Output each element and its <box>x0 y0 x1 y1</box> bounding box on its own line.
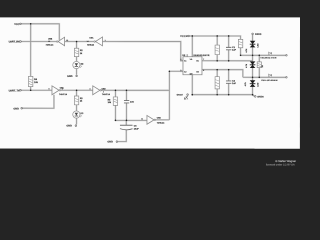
wire gate U5B to gate U5A <box>65 41 94 43</box>
resistor B2 parallel <box>257 62 264 68</box>
diode D5 tvs mid <box>250 61 256 68</box>
svg-text:1uF: 1uF <box>232 49 236 51</box>
wire IC bottom ground pin <box>191 75 193 95</box>
wire IC top power pin <box>191 36 193 57</box>
svg-text:U2: U2 <box>182 54 185 56</box>
svg-text:74HC14: 74HC14 <box>157 122 165 124</box>
svg-text:VCC2: VCC2 <box>180 35 187 38</box>
wire TX filter stubs <box>115 90 126 120</box>
svg-text:R5: R5 <box>108 99 111 101</box>
svg-text:© Stefan Wagner: © Stefan Wagner <box>275 160 296 163</box>
wire gate U5A input from IC pin <box>102 42 183 61</box>
svg-text:1k: 1k <box>80 100 82 102</box>
svg-text:1uF: 1uF <box>232 82 236 84</box>
svg-text:RXD0: RXD0 <box>255 33 262 36</box>
svg-text:GND: GND <box>13 107 19 110</box>
wire decoupling cap C2 stubs <box>228 70 230 95</box>
svg-text:VCC: VCC <box>14 23 19 26</box>
svg-text:GND2: GND2 <box>177 94 183 96</box>
diode D6 tvs bottom <box>250 80 256 87</box>
svg-text:A1: A1 <box>184 60 187 62</box>
svg-text:SN6501DBVR: SN6501DBVR <box>193 54 209 56</box>
wire resistor R6 bottom stub <box>240 48 242 56</box>
wire tap2 to terminal <box>243 76 285 78</box>
node terminal tap2 <box>286 77 288 79</box>
schematic white field <box>0 17 300 148</box>
svg-text:R2: R2 <box>80 49 83 51</box>
svg-text:GND: GND <box>67 75 73 78</box>
node RXD0 terminal <box>252 33 262 36</box>
node VCC2 terminal <box>180 35 189 38</box>
svg-text:10uF: 10uF <box>134 128 139 130</box>
svg-text:C4: C4 <box>134 125 137 127</box>
svg-text:UART_RX: UART_RX <box>9 40 20 43</box>
svg-text:U5D: U5D <box>102 88 106 90</box>
svg-text:74HC14: 74HC14 <box>87 44 94 46</box>
wire VCC2 rail <box>189 36 240 39</box>
svg-text:A2: A2 <box>184 71 187 73</box>
svg-text:VD: VD <box>190 58 193 60</box>
node GND cap <box>107 141 117 144</box>
resistor R4 pull-up <box>28 76 38 86</box>
LED D2 RX indicator <box>73 61 84 68</box>
wire bottom rail to inverter U5E <box>115 119 146 121</box>
svg-text:74HC14: 74HC14 <box>46 44 54 46</box>
capacitor C4 electrolytic <box>120 125 139 130</box>
node VCC rail wire <box>21 24 59 40</box>
wire IC right pin 1 line <box>202 60 253 62</box>
node GND0 terminal <box>254 95 263 98</box>
resistor RB lower <box>215 77 219 89</box>
svg-text:1k: 1k <box>80 52 82 54</box>
op-amp U5B inverter gate top1 <box>46 37 69 46</box>
svg-text:10k: 10k <box>108 101 112 103</box>
top letterbox bar <box>0 0 300 17</box>
op-amp U5A inverter gate top2 <box>87 37 106 46</box>
svg-text:C2: C2 <box>232 80 235 82</box>
svg-text:U5E: U5E <box>157 117 161 119</box>
wire IC left pin stubs <box>180 61 183 72</box>
LED D3 TX indicator <box>73 111 84 118</box>
node GND terminal bottom left <box>13 107 22 110</box>
svg-text:2: 2 <box>180 59 181 61</box>
wire UART_TX to gate U5C <box>21 89 51 91</box>
svg-text:C1: C1 <box>232 46 235 48</box>
svg-text:R3: R3 <box>80 97 83 99</box>
svg-text:GND: GND <box>107 141 113 144</box>
svg-text:5: 5 <box>48 88 49 90</box>
wire decoupling cap C1 stubs <box>228 36 230 61</box>
svg-text:6: 6 <box>203 69 204 71</box>
node GND RX chain <box>67 75 77 78</box>
wire resistor B2 parallel stubs <box>258 55 260 77</box>
capacitor C2 decoupling <box>226 80 236 85</box>
wire pull-up drop from VCC <box>30 24 32 77</box>
svg-text:12: 12 <box>48 40 50 42</box>
svg-text:14: 14 <box>87 40 89 42</box>
svg-text:PULLUP-DRAIN: PULLUP-DRAIN <box>261 79 277 81</box>
svg-text:4: 4 <box>103 91 104 93</box>
wire right LED column <box>252 35 254 95</box>
wire IC top pin stub 2 <box>186 54 188 57</box>
svg-text:U5A: U5A <box>89 37 93 39</box>
svg-text:D2: D2 <box>81 62 84 64</box>
svg-text:GND: GND <box>66 125 72 128</box>
svg-text:3: 3 <box>89 88 90 90</box>
resistor R6 column top <box>238 39 242 47</box>
wire tap1 to terminal <box>241 54 286 56</box>
wire GND0 terminal stub <box>253 95 255 97</box>
svg-text:6: 6 <box>62 88 63 90</box>
svg-text:10k: 10k <box>34 81 38 83</box>
capacitor C1 decoupling <box>226 46 236 51</box>
resistor RA top <box>215 45 219 55</box>
svg-text:GND0: GND0 <box>257 95 264 98</box>
svg-text:TXD/RXD-PAIR: TXD/RXD-PAIR <box>260 57 276 59</box>
svg-text:4.7k: 4.7k <box>245 49 247 53</box>
resistor R2 RX led <box>74 48 82 56</box>
svg-text:B1: B1 <box>196 60 199 62</box>
svg-text:1k: 1k <box>261 65 263 67</box>
svg-text:74HC14: 74HC14 <box>59 93 67 95</box>
op-amp U2 isolator IC body <box>180 54 209 75</box>
node GND TX chain <box>66 125 76 128</box>
svg-text:UART_TX: UART_TX <box>9 89 20 92</box>
wire pull-up resistor bottom stub <box>30 87 32 91</box>
svg-text:11: 11 <box>141 118 143 120</box>
wire gate U5C to gate U5D <box>61 89 93 91</box>
svg-text:104: 104 <box>130 101 134 103</box>
svg-text:U5B: U5B <box>48 38 52 40</box>
wire resistor RA stubs <box>216 36 218 61</box>
wire electrolytic cap stubs <box>118 120 126 141</box>
svg-text:B2: B2 <box>196 71 199 73</box>
svg-text:4.7k: 4.7k <box>245 64 247 68</box>
wire gate U5D output to IC pin <box>101 71 183 120</box>
wire ground rail GND2 <box>192 94 252 96</box>
svg-text:13: 13 <box>66 39 68 41</box>
wire TX led chain stubs <box>76 90 78 124</box>
node UART_RX terminal <box>9 40 22 43</box>
svg-text:D3: D3 <box>81 112 84 114</box>
svg-text:3: 3 <box>180 69 181 71</box>
svg-text:LED: LED <box>257 43 259 47</box>
svg-text:GN: GN <box>190 73 193 75</box>
diode D4 tvs top <box>250 41 256 48</box>
capacitor C3 filter <box>124 101 134 104</box>
svg-text:74HC14: 74HC14 <box>102 93 110 95</box>
resistor R5 filter <box>108 97 118 105</box>
resistor R3 TX led <box>74 96 82 105</box>
svg-text:7: 7 <box>203 59 204 61</box>
op-amp U5C inverter gate bottom1 <box>48 86 67 96</box>
wire resistor RB stubs <box>216 70 218 95</box>
node terminal tap1 <box>286 55 288 57</box>
wire inverter U5E output <box>156 119 170 121</box>
svg-text:1: 1 <box>105 39 106 41</box>
op-amp U5D inverter gate bottom2 <box>89 86 110 96</box>
ground GND2 arrow <box>177 94 194 100</box>
wire UART_RX to gate U5B output <box>21 41 56 43</box>
wire gate GND feed bottom left <box>23 95 54 109</box>
wire RX led chain stubs <box>76 42 78 75</box>
node UART_TX terminal <box>9 89 22 92</box>
svg-text:4.7k: 4.7k <box>244 82 246 86</box>
svg-text:LED: LED <box>257 83 259 87</box>
svg-text:R4: R4 <box>34 78 37 80</box>
op-amp U5E inverter gate mid <box>141 115 164 124</box>
diode D8 small bottom tap <box>261 74 277 81</box>
svg-text:licensed under CC-BY-SA: licensed under CC-BY-SA <box>266 163 295 166</box>
node VCC terminal <box>14 23 21 26</box>
diode D7 small top tap <box>260 52 276 59</box>
wire IC right pin 2 line <box>202 70 243 78</box>
bottom letterbox bar <box>0 149 300 168</box>
